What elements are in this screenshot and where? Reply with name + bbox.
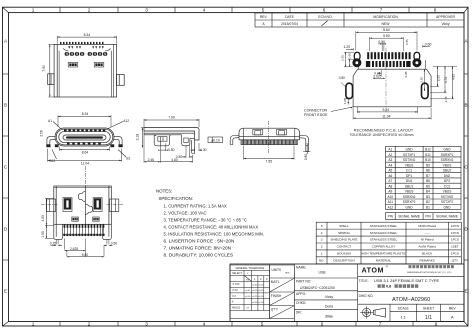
svg-text:NI/SN Plated: NI/SN Plated bbox=[418, 224, 436, 228]
bottom view dims bbox=[51, 238, 113, 257]
svg-text:5.50: 5.50 bbox=[82, 253, 89, 257]
svg-text:B12: B12 bbox=[425, 148, 431, 152]
svg-text:X.XXX: X.XXX bbox=[232, 283, 239, 286]
svg-text:SSRXN2: SSRXN2 bbox=[403, 195, 416, 199]
side body shell bbox=[144, 128, 199, 140]
svg-text:0.50: 0.50 bbox=[378, 40, 385, 44]
left contact pad (black) bbox=[63, 198, 72, 212]
svg-text:11.04: 11.04 bbox=[81, 161, 89, 165]
bean pad right bbox=[414, 52, 420, 65]
svg-text:SSTXN2: SSTXN2 bbox=[441, 195, 454, 199]
svg-text:2.35: 2.35 bbox=[341, 55, 345, 61]
VIEW: side profile view (center) bbox=[141, 119, 223, 163]
dimension 0.60 pcb right bbox=[422, 45, 430, 47]
svg-text:A6: A6 bbox=[388, 174, 392, 178]
svg-text:DP2: DP2 bbox=[444, 179, 450, 183]
svg-text:VBUS: VBUS bbox=[405, 190, 414, 194]
connector front edge leader bbox=[331, 107, 352, 111]
dimension 3.18 vertical side view bbox=[141, 128, 146, 148]
svg-text:PIN: PIN bbox=[388, 215, 394, 219]
svg-text:TITLE:: TITLE: bbox=[359, 279, 369, 283]
top teeth row bbox=[60, 42, 104, 45]
svg-text:DP1: DP1 bbox=[406, 174, 412, 178]
centerline bottom view bbox=[84, 166, 86, 186]
svg-text:DESCRIPTION: DESCRIPTION bbox=[333, 259, 354, 263]
svg-text:B12: B12 bbox=[50, 159, 56, 163]
svg-text:SCALE: SCALE bbox=[398, 307, 410, 311]
svg-text:±0.05: ±0.05 bbox=[252, 285, 258, 287]
svg-text:2.45: 2.45 bbox=[444, 96, 448, 102]
svg-text:±0.50: ±0.50 bbox=[252, 302, 258, 304]
svg-text:±3°: ±3° bbox=[246, 308, 249, 310]
svg-text:SIGNAL NAME: SIGNAL NAME bbox=[436, 215, 458, 219]
svg-text:GND: GND bbox=[443, 148, 451, 152]
title block bbox=[230, 264, 464, 322]
svg-text:STAINLESS STEEL: STAINLESS STEEL bbox=[370, 238, 398, 242]
svg-text:NAME:: NAME: bbox=[296, 266, 307, 270]
svg-text:9.24: 9.24 bbox=[382, 108, 389, 112]
pad row 1 bbox=[367, 52, 410, 59]
svg-text:4.00: 4.00 bbox=[41, 215, 45, 222]
svg-text:TOLERANCE UNSPECIFIED ±0.05m: TOLERANCE UNSPECIFIED ±0.05mm bbox=[349, 133, 413, 137]
svg-text:3.35: 3.35 bbox=[420, 77, 424, 83]
dimension 8.64 pcb bbox=[356, 31, 417, 51]
ruler numbers bottom bbox=[32, 321, 438, 326]
svg-text:E: E bbox=[4, 289, 7, 294]
svg-text:5: 5 bbox=[261, 321, 264, 326]
svg-text:SBU1: SBU1 bbox=[405, 184, 414, 188]
svg-text:A7: A7 bbox=[388, 179, 392, 183]
svg-text:A11: A11 bbox=[388, 200, 394, 204]
dim 1.20 vertical left bbox=[344, 99, 350, 105]
right vertical dims 2.35 3.70 4.85 bbox=[430, 66, 457, 99]
svg-text:0.35: 0.35 bbox=[405, 39, 409, 45]
bottom view body bbox=[54, 186, 112, 224]
svg-text:DATE: DATE bbox=[285, 15, 295, 19]
right horizontal centerline bbox=[107, 204, 124, 206]
svg-text:7: 7 bbox=[379, 321, 382, 326]
pcb centerline bbox=[385, 48, 387, 112]
pcb body outline bbox=[353, 69, 431, 107]
svg-text:UNITS: UNITS bbox=[272, 268, 282, 272]
svg-text:USB: USB bbox=[319, 270, 327, 274]
ruler ticks bottom bbox=[60, 322, 413, 327]
centerline rear view bbox=[268, 121, 270, 154]
svg-text:7: 7 bbox=[380, 8, 383, 13]
VIEW: bottom view (lower-left) bbox=[41, 166, 124, 257]
dim 0.80 left of body bbox=[341, 83, 346, 87]
dimension 7.90 vertical top view bbox=[49, 44, 56, 97]
svg-text:A5: A5 bbox=[388, 169, 392, 173]
front view outer shell bbox=[55, 128, 114, 146]
dimension 5.50 pcb bbox=[370, 37, 404, 51]
ruler numbers top bbox=[32, 8, 437, 13]
svg-text:SSTXP2: SSTXP2 bbox=[441, 200, 453, 204]
svg-text:USB 3.1 24P FEMALE SMT C: USB 3.1 24P FEMALE SMT C TYPE bbox=[374, 278, 439, 283]
svg-text:SHEET: SHEET bbox=[423, 307, 434, 311]
svg-text:APPROVER: APPROVER bbox=[436, 15, 455, 19]
svg-text:8.34: 8.34 bbox=[84, 33, 91, 37]
svg-text:Au/NI Plated: Au/NI Plated bbox=[419, 245, 437, 249]
left bean vertical dims lines bbox=[344, 52, 354, 67]
svg-text:4: 4 bbox=[321, 231, 323, 235]
svg-text:1PCS: 1PCS bbox=[451, 231, 459, 235]
svg-text:NOTES:: NOTES: bbox=[156, 189, 172, 194]
third angle projection symbol bbox=[360, 306, 385, 318]
oval pad left bbox=[346, 83, 353, 98]
svg-text:1:1: 1:1 bbox=[401, 315, 406, 319]
svg-text:1: 1 bbox=[32, 8, 35, 13]
svg-text:8.64: 8.64 bbox=[82, 151, 89, 155]
revision table bbox=[255, 13, 464, 27]
svg-text:B11: B11 bbox=[425, 153, 431, 157]
3-square boxes top view bbox=[68, 62, 104, 67]
svg-text:SIGNAL NAME: SIGNAL NAME bbox=[398, 215, 420, 219]
svg-text:2. VOLTAGE: 100 VAC: 2. VOLTAGE: 100 VAC bbox=[164, 210, 207, 215]
3-square boxes bottom view bbox=[72, 217, 99, 221]
svg-text:SHENZHEN ATOM TECHNOLOGY CO: SHENZHEN ATOM TECHNOLOGY CO., LTD. bbox=[407, 271, 452, 274]
svg-text:2: 2 bbox=[88, 321, 91, 326]
svg-text:±0.25: ±0.25 bbox=[252, 296, 258, 298]
notes block bbox=[156, 189, 264, 258]
svg-text:B1: B1 bbox=[126, 157, 130, 161]
svg-text:APPO:: APPO: bbox=[296, 292, 306, 296]
oval pad right bbox=[422, 83, 429, 98]
svg-text:7.90: 7.90 bbox=[168, 116, 175, 120]
right contact pad (black) bbox=[93, 198, 102, 212]
svg-text:X.: X. bbox=[232, 301, 235, 304]
svg-text:VBUS: VBUS bbox=[443, 163, 452, 167]
side right leg below bbox=[192, 140, 195, 154]
svg-text:COPPER ALLOY: COPPER ALLOY bbox=[372, 245, 396, 249]
svg-text:1: 1 bbox=[321, 252, 323, 256]
svg-text:CHKD:: CHKD: bbox=[296, 301, 306, 305]
ECN slash mark bbox=[322, 21, 328, 26]
svg-text:SSTXN1: SSTXN1 bbox=[403, 158, 416, 162]
svg-text:2.56: 2.56 bbox=[40, 130, 44, 136]
svg-text:DN1: DN1 bbox=[406, 179, 413, 183]
pin assignment table bbox=[386, 146, 462, 219]
svg-text:BLACK: BLACK bbox=[422, 252, 433, 256]
svg-text:NI Plated: NI Plated bbox=[421, 238, 434, 242]
end shell legs bottom view bbox=[54, 224, 63, 239]
svg-text:0.80: 0.80 bbox=[339, 76, 345, 80]
svg-text:RECOMMENDED P.C.B. LAYOUT: RECOMMENDED P.C.B. LAYOUT bbox=[354, 129, 414, 133]
dimension 7.90 side view bbox=[144, 119, 199, 127]
svg-text:ANGLE: ANGLE bbox=[232, 307, 241, 310]
svg-text:A: A bbox=[451, 315, 454, 320]
svg-text:SPECIFICATION:: SPECIFICATION: bbox=[159, 196, 194, 201]
svg-text:B5: B5 bbox=[426, 184, 430, 188]
left side tab bottom view bbox=[46, 199, 55, 212]
svg-text:0.95: 0.95 bbox=[404, 71, 408, 77]
svg-text:2.625: 2.625 bbox=[70, 247, 78, 251]
dim 11.04 pcb bbox=[353, 108, 431, 120]
svg-text:GND: GND bbox=[406, 148, 414, 152]
svg-text:1PCS: 1PCS bbox=[451, 224, 459, 228]
dims below side view bbox=[144, 131, 202, 163]
dimension 8.34 top view bbox=[57, 36, 116, 44]
svg-text:MODIFICATION: MODIFICATION bbox=[373, 15, 398, 19]
svg-text:FINISH: FINISH bbox=[271, 294, 282, 298]
svg-text:mm: mm bbox=[285, 272, 289, 275]
svg-text:X.X: X.X bbox=[232, 295, 236, 298]
VIEW: top view (upper-left) bbox=[48, 36, 125, 97]
general tolerance table bbox=[230, 265, 270, 319]
svg-text:MATERIAL: MATERIAL bbox=[376, 259, 392, 263]
svg-text:8: 8 bbox=[435, 321, 438, 326]
svg-text:1PCS: 1PCS bbox=[451, 238, 459, 242]
units matl finish qty column bbox=[270, 265, 295, 319]
svg-text:3: 3 bbox=[145, 321, 148, 326]
svg-text:A8: A8 bbox=[388, 184, 392, 188]
svg-text:1. CURRENT RATING: 1.5A MA: 1. CURRENT RATING: 1.5A MAX bbox=[164, 203, 228, 208]
svg-text:DWG NO.: DWG NO. bbox=[359, 294, 374, 298]
svg-text:A12: A12 bbox=[387, 206, 393, 210]
svg-text:4: 4 bbox=[203, 321, 206, 326]
svg-text:1.95: 1.95 bbox=[41, 231, 45, 238]
smt pin stems and ball pads bbox=[63, 228, 105, 236]
svg-text:4. CONTACT RESISTANCE: 40: 4. CONTACT RESISTANCE: 40 MILLIONHM MAX bbox=[164, 224, 259, 229]
svg-text:A9: A9 bbox=[388, 190, 392, 194]
svg-text:VBUS: VBUS bbox=[405, 163, 414, 167]
svg-text:FRONT EDGE: FRONT EDGE bbox=[304, 113, 328, 117]
ruler ticks top bbox=[60, 7, 409, 12]
right mounting leg bbox=[114, 137, 123, 147]
svg-text:1/1: 1/1 bbox=[425, 315, 432, 321]
svg-text:B: B bbox=[4, 103, 7, 108]
svg-text:3. TEMPERATURE RANGE: −30 °: 3. TEMPERATURE RANGE: −30 °C ~ 85 °C bbox=[164, 217, 247, 222]
svg-text:A10: A10 bbox=[387, 195, 393, 199]
svg-text:8.34: 8.34 bbox=[82, 112, 89, 116]
svg-text:1SET: 1SET bbox=[451, 245, 459, 249]
svg-text:5: 5 bbox=[321, 224, 323, 228]
svg-text:1.20: 1.20 bbox=[343, 98, 347, 104]
svg-text:2.45: 2.45 bbox=[148, 158, 155, 162]
svg-text:±0.10: ±0.10 bbox=[245, 296, 251, 298]
svg-text:1: 1 bbox=[32, 321, 35, 326]
svg-text:7.90: 7.90 bbox=[42, 65, 46, 72]
top view body bbox=[54, 44, 117, 97]
VIEW: rear elevation view 7.55 bbox=[230, 121, 310, 160]
side right angle foot bbox=[182, 135, 195, 146]
svg-text:ECN NO.: ECN NO. bbox=[318, 15, 332, 19]
ruler ticks left bbox=[3, 74, 9, 260]
svg-text:3: 3 bbox=[145, 8, 148, 13]
feature control frame dia 0.10 bbox=[208, 137, 223, 143]
svg-text:B3: B3 bbox=[426, 195, 430, 199]
svg-text:7.55: 7.55 bbox=[265, 160, 272, 164]
svg-text:A12: A12 bbox=[123, 119, 129, 123]
oval contacts row bbox=[65, 52, 108, 56]
left horizontal centerline bbox=[41, 204, 59, 206]
dims 0.25 / 2.625 inside body bbox=[373, 70, 385, 79]
svg-text:A1: A1 bbox=[48, 119, 52, 123]
rear body bbox=[239, 128, 300, 140]
svg-text:NEW: NEW bbox=[382, 22, 391, 26]
svg-text:B8: B8 bbox=[426, 169, 430, 173]
svg-text:REV: REV bbox=[449, 307, 457, 311]
svg-text:Q'TY: Q'TY bbox=[271, 308, 279, 312]
svg-text:B9: B9 bbox=[426, 163, 430, 167]
svg-text:5: 5 bbox=[262, 8, 265, 13]
svg-text:1.20: 1.20 bbox=[343, 45, 350, 49]
svg-text:CC2: CC2 bbox=[444, 184, 451, 188]
svg-text:A4: A4 bbox=[388, 163, 392, 167]
svg-text:B10: B10 bbox=[425, 158, 431, 162]
VIEW: front view (left, middle) bbox=[46, 115, 126, 161]
svg-text:6: 6 bbox=[323, 8, 326, 13]
svg-text:B1: B1 bbox=[426, 206, 430, 210]
svg-text:±0.10: ±0.10 bbox=[258, 285, 264, 287]
connector front edge text bbox=[304, 108, 328, 117]
svg-text:DN2: DN2 bbox=[444, 174, 451, 178]
rear pins strip bbox=[241, 140, 298, 145]
svg-text:±0.15: ±0.15 bbox=[252, 290, 258, 292]
svg-text:5. INSULATION RESISTANCE: 1: 5. INSULATION RESISTANCE: 100 MEGOHMS MI… bbox=[164, 231, 265, 236]
svg-text:PART NO:: PART NO: bbox=[296, 280, 311, 284]
svg-text:SHELL: SHELL bbox=[339, 224, 349, 228]
svg-text:-----: ----- bbox=[425, 231, 430, 235]
svg-text:X.XX: X.XX bbox=[232, 289, 238, 292]
svg-text:2015/07/04: 2015/07/04 bbox=[281, 22, 298, 26]
lower latch knob bbox=[85, 204, 92, 214]
svg-text:±0.05: ±0.05 bbox=[245, 290, 251, 292]
svg-text:NO.: NO. bbox=[319, 259, 325, 263]
BOM table bbox=[316, 222, 461, 264]
svg-text:✓: ✓ bbox=[247, 272, 249, 275]
dimension 8.64 front view bbox=[60, 147, 110, 151]
dimension 0.80 vertical rear bbox=[303, 143, 311, 153]
label A1 leader bbox=[53, 122, 61, 129]
svg-text:SHIELDING PLATE: SHIELDING PLATE bbox=[330, 238, 357, 242]
name/part/appo/chkd/dr column bbox=[294, 264, 357, 322]
svg-text:8. DURABILITY: 10,000 CYC: 8. DURABILITY: 10,000 CYCLES bbox=[164, 253, 234, 258]
right side tab top view bbox=[117, 75, 125, 86]
svg-text:B: B bbox=[464, 103, 467, 108]
svg-text:A1: A1 bbox=[388, 148, 392, 152]
svg-text:PIN: PIN bbox=[425, 215, 431, 219]
svg-text:3.70: 3.70 bbox=[444, 77, 448, 83]
svg-text:ATOM: ATOM bbox=[362, 266, 385, 275]
svg-text:SELECT: SELECT bbox=[232, 272, 242, 275]
dimension 7.55 bbox=[244, 146, 294, 160]
svg-text:6: 6 bbox=[321, 321, 324, 326]
svg-text:STAINLESS STEEL: STAINLESS STEEL bbox=[370, 231, 398, 235]
svg-text:1.30: 1.30 bbox=[200, 148, 207, 152]
left mounting leg bbox=[47, 137, 56, 147]
mold parting centerline bbox=[84, 186, 86, 224]
bean pad left bbox=[354, 52, 360, 65]
svg-text:0.60: 0.60 bbox=[425, 42, 432, 46]
svg-text:2: 2 bbox=[88, 8, 91, 13]
title text bbox=[359, 278, 440, 289]
left side tab top view bbox=[48, 74, 54, 85]
svg-text:B2: B2 bbox=[426, 200, 430, 204]
svg-text:A2: A2 bbox=[388, 153, 392, 157]
svg-text:0.80: 0.80 bbox=[168, 148, 175, 152]
recommended pcb layout caption bbox=[349, 129, 413, 138]
corner diagonal bottom-right bbox=[464, 322, 468, 327]
corner diagonal bottom-left bbox=[3, 322, 9, 327]
svg-text:±0.50: ±0.50 bbox=[258, 296, 264, 298]
svg-text:1.60: 1.60 bbox=[348, 53, 352, 59]
svg-text:0.8: 0.8 bbox=[386, 285, 391, 289]
svg-text:QTY: QTY bbox=[452, 259, 458, 263]
spring contacts top view bbox=[68, 46, 104, 49]
VIEW: recommended PCB layout (upper-right) bbox=[331, 31, 457, 119]
svg-text:11.04: 11.04 bbox=[382, 114, 390, 118]
svg-text:VBUS: VBUS bbox=[443, 190, 452, 194]
top contact bumps bbox=[64, 130, 105, 132]
dimension 0.50 pcb bbox=[378, 43, 386, 51]
svg-text:0.80: 0.80 bbox=[304, 154, 308, 160]
dimension 8.34 front view bbox=[58, 115, 111, 127]
svg-text:±1.00: ±1.00 bbox=[258, 302, 264, 304]
svg-text:8.64: 8.64 bbox=[383, 28, 390, 32]
svg-text:2: 2 bbox=[321, 245, 323, 249]
rear window tabs bbox=[253, 129, 263, 135]
staggered smt pad row bbox=[64, 224, 105, 228]
svg-text:±0.25: ±0.25 bbox=[258, 290, 264, 292]
tongue bbox=[63, 135, 106, 140]
rear left leg bbox=[230, 135, 239, 144]
dimension 1.20 pcb left bbox=[346, 48, 354, 50]
svg-text:4.85: 4.85 bbox=[451, 74, 455, 80]
label A12 leader bbox=[109, 122, 124, 129]
svg-text:8: 8 bbox=[434, 8, 437, 13]
svg-text:Doria: Doria bbox=[325, 305, 333, 309]
dim 9.24 pcb bbox=[357, 107, 417, 113]
ATOM logo bbox=[362, 265, 454, 275]
rear right leg bbox=[300, 135, 309, 151]
svg-text:0.50: 0.50 bbox=[111, 242, 118, 246]
svg-text:HIGH TEMPERATURE PLASTIC: HIGH TEMPERATURE PLASTIC bbox=[361, 252, 407, 256]
svg-text:6. LNSERTION FORCE : 5N~20: 6. LNSERTION FORCE : 5N~20N bbox=[164, 239, 235, 244]
dwg no. bbox=[359, 294, 431, 303]
svg-text:Vicky: Vicky bbox=[441, 22, 449, 26]
svg-text:SBU2: SBU2 bbox=[443, 169, 452, 173]
svg-text:CONNECTOR: CONNECTOR bbox=[304, 108, 327, 112]
svg-text:STAINLESS STEEL: STAINLESS STEEL bbox=[370, 224, 398, 228]
svg-text:SSRXN1: SSRXN1 bbox=[441, 158, 454, 162]
svg-text:4.80: 4.80 bbox=[171, 158, 178, 162]
svg-text:1PCS: 1PCS bbox=[451, 252, 459, 256]
side left foot block bbox=[154, 135, 170, 146]
svg-text:SSRXP2: SSRXP2 bbox=[403, 200, 416, 204]
svg-text:CONTACT: CONTACT bbox=[337, 245, 352, 249]
svg-text:MAT'L: MAT'L bbox=[271, 280, 280, 284]
svg-text:SSTXP1: SSTXP1 bbox=[403, 153, 415, 157]
svg-text:GND: GND bbox=[443, 206, 451, 210]
scale sheet rev bbox=[398, 307, 457, 322]
label B12 leader bbox=[52, 150, 57, 160]
svg-text:HOUSING: HOUSING bbox=[337, 252, 352, 256]
corner cutouts bbox=[63, 49, 68, 52]
left vertical dims 4.00 / 1.95 bbox=[45, 199, 54, 239]
svg-text:7. UNMATING FORCE: 8N~20N: 7. UNMATING FORCE: 8N~20N bbox=[164, 246, 232, 251]
svg-text:Vicky: Vicky bbox=[325, 295, 333, 299]
svg-text:4: 4 bbox=[203, 8, 206, 13]
svg-text:3: 3 bbox=[321, 238, 323, 242]
bottom contact bumps bbox=[67, 142, 101, 144]
pad row 2 bbox=[366, 61, 411, 67]
corner diagonal top-left bbox=[3, 7, 9, 12]
upper latch knob bbox=[78, 192, 85, 202]
logo / title / dwg no. section bbox=[358, 276, 464, 321]
pcb dim texts bbox=[339, 28, 432, 118]
svg-text:Jillian: Jillian bbox=[325, 315, 334, 319]
